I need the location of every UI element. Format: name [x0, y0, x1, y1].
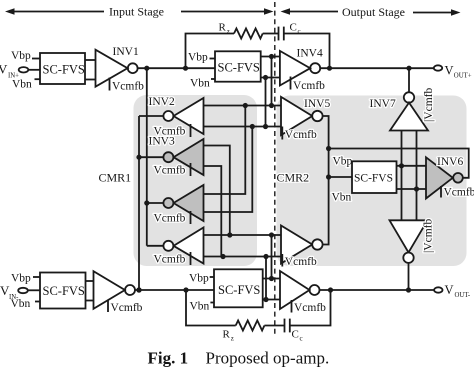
block SC-FVS U6 [352, 161, 397, 193]
inverter U7 (down) [390, 220, 428, 263]
junction bus minus to bottom rail [136, 287, 141, 292]
block SC-FVS U1 [40, 53, 85, 84]
wire bottom rail to box5 [135, 289, 214, 291]
inverter U11 (bottom output) [280, 271, 320, 309]
shaded region CMR2/output [277, 96, 467, 267]
junction bottom feedback [328, 287, 333, 292]
svg-text:V: V [445, 283, 454, 297]
wire box1 to INV1 upper [85, 59, 96, 61]
label Vcmfb INV4 [291, 77, 326, 93]
terminal Vout+ [434, 65, 442, 70]
label Rz bottom [223, 329, 234, 343]
svg-text:INV1: INV1 [113, 46, 139, 58]
wire Vbp stub bottom [33, 276, 40, 278]
wire bus B lower segment [271, 235, 273, 279]
wire Vin+ to box [28, 69, 40, 71]
wire resistor to cap top [263, 33, 279, 35]
junction U7 on bottom rail [406, 287, 411, 292]
svg-text:SC-FVS: SC-FVS [43, 63, 85, 77]
junction w1/busB [269, 103, 274, 108]
wire CMR1 bus plus (x146.8) [146, 68, 148, 246]
wire cap to bottom rail [290, 290, 331, 326]
label Vout- [445, 283, 471, 299]
label Vcmfb U4 [154, 252, 191, 266]
resistor Rz (bottom) [236, 321, 265, 331]
wire INV4 output rail [320, 67, 434, 69]
wire INV7 leg right [416, 131, 418, 221]
svg-text:INV5: INV5 [304, 98, 330, 110]
junction leg1/box3 wire [399, 163, 404, 168]
wire w5 U3 top cross [204, 106, 246, 195]
svg-text:Vbp: Vbp [333, 156, 353, 168]
svg-text:R: R [223, 329, 231, 341]
capacitor Cc (bottom) [285, 319, 290, 333]
svg-text:Vbn: Vbn [11, 298, 31, 310]
wire box2 to INV4 lower [261, 77, 280, 79]
junction CMR2 bus / loop [326, 146, 331, 151]
junction w1/w5 [243, 103, 248, 108]
shaded region CMR1 [134, 95, 258, 266]
wire feedback top left vertical [186, 34, 235, 69]
svg-text:CMR1: CMR1 [99, 171, 132, 185]
label Rz top [219, 22, 230, 36]
wire top rail INV1 to box2 [138, 67, 215, 69]
inverter INV2 [163, 98, 203, 134]
inverter U3 (gray) [163, 185, 203, 221]
wire CMR2 output bus [323, 116, 329, 245]
svg-text:Vcmfb: Vcmfb [154, 213, 186, 225]
wire Vbn stub bottom [35, 301, 40, 303]
node Vin- label [0, 283, 19, 301]
wire cap to INV4 output [284, 34, 330, 69]
svg-text:Vcmfb: Vcmfb [285, 256, 317, 268]
svg-text:INV7: INV7 [370, 98, 396, 110]
wire w7 U4 top to CMR2 lower inverter [204, 234, 282, 236]
stage separator dashed line [274, 2, 276, 337]
inverter INV6 [426, 157, 463, 198]
inverter INV4 [280, 51, 320, 86]
junction w8/busA2 [263, 254, 268, 259]
svg-text:Vcmfb: Vcmfb [444, 187, 474, 199]
junction INV3 out on bus [136, 155, 141, 160]
label Vcmfb INV6 [441, 186, 474, 199]
output stage annotation left arrow [281, 8, 339, 15]
wire CMR1 bus minus (x139) [138, 116, 140, 290]
wire w1 INV2 top to INV5 top [204, 105, 282, 107]
junction top rail to CMR1 [144, 66, 149, 71]
label Vcmfb INV3 [154, 163, 191, 177]
svg-text:V: V [0, 62, 8, 77]
svg-text:Vbp: Vbp [11, 50, 31, 62]
svg-text:R: R [219, 22, 227, 34]
inverter U5 (CMR2 lower) [281, 226, 323, 264]
svg-text:SC-FVS: SC-FVS [218, 283, 260, 297]
inverter U4 (white) [163, 228, 203, 264]
junction CMR2 bus / box3 [326, 174, 331, 179]
junction bottom rail / CMR1 bus [136, 287, 141, 292]
junction busB2 end [269, 276, 274, 281]
svg-text:Vcmfb: Vcmfb [293, 80, 325, 92]
label Vcmfb INV5 [282, 127, 317, 142]
label Vcmfb INV1 [110, 78, 145, 93]
wire w2 INV2 bottom to INV5 bottom [204, 126, 282, 128]
wire U7 to bottom rail [408, 263, 410, 290]
junction top rail to feedback [183, 66, 188, 71]
wire w8 U4 bottom to CMR2 lower inverter [204, 256, 282, 258]
wire INV2 output [139, 115, 164, 117]
junction B top [269, 54, 274, 59]
block SC-FVS U10 [214, 269, 263, 307]
svg-text:|Vcmfb: |Vcmfb [423, 88, 435, 122]
wire INV6 output loop [329, 149, 469, 178]
svg-text:V: V [445, 64, 454, 78]
svg-text:z: z [231, 335, 234, 343]
svg-text:SC-FVS: SC-FVS [218, 61, 260, 75]
wire box2 to INV4 upper [261, 56, 280, 58]
wire resistor to cap bottom [264, 325, 284, 327]
wire Vbp stub box5 [210, 276, 214, 278]
junction INV7 tap [406, 66, 411, 71]
svg-text:OUT-: OUT- [455, 292, 471, 299]
wire inverter3 output [147, 202, 164, 204]
svg-text:Vbn: Vbn [12, 79, 32, 91]
node Vin+ label [0, 62, 19, 80]
svg-text:Vbp: Vbp [188, 52, 208, 64]
wire Vbn stub [35, 78, 41, 80]
inverter INV1 [96, 50, 138, 87]
svg-text:INV3: INV3 [149, 136, 175, 148]
wire INV7 leg left [401, 131, 403, 221]
wire inverter4 output [147, 245, 164, 247]
svg-text:CMR2: CMR2 [277, 171, 310, 185]
block SC-FVS U2 [215, 51, 261, 81]
wire box4 to INV lower [86, 300, 94, 302]
inverter INV3 [163, 139, 203, 175]
input stage annotation left arrow [5, 8, 104, 15]
wire bottom output rail [320, 289, 435, 291]
svg-text:|Vcmfb: |Vcmfb [423, 219, 435, 253]
junction busA2 end [263, 297, 268, 302]
wire box5 to INV upper [263, 278, 280, 280]
wire w3 INV3 top cross [204, 146, 230, 236]
junction w7/w3 [227, 232, 232, 237]
wire w4 INV3 bottom cross [204, 166, 222, 257]
wire box5 to INV lower [263, 299, 280, 301]
terminal Vout- [434, 287, 442, 292]
resistor Rz (top) [234, 29, 263, 39]
label Vcmfb U9 [108, 300, 143, 315]
junction A top [263, 75, 268, 80]
svg-text:Vbp: Vbp [11, 273, 31, 285]
terminal Vin+ [19, 67, 29, 72]
svg-text:SC-FVS: SC-FVS [43, 284, 85, 298]
wire box3 to INV6 upper [397, 165, 427, 167]
capacitor Cc (top) [279, 27, 284, 41]
svg-text:Vcmfb: Vcmfb [154, 165, 186, 177]
svg-text:INV6: INV6 [437, 156, 463, 168]
svg-text:Vcmfb: Vcmfb [285, 129, 317, 141]
junction feedback at INV4 out [327, 66, 332, 71]
wire box1 to INV1 lower [85, 79, 96, 81]
label Vcmfb INV2 [154, 124, 191, 138]
wire Vout+ to INV7 [408, 68, 410, 92]
junction w2/busA [263, 124, 268, 129]
label Vcmfb U11 [292, 300, 327, 314]
svg-text:Fig. 1: Fig. 1 [148, 349, 189, 368]
terminal Vin- [18, 288, 28, 293]
svg-text:z: z [227, 28, 230, 36]
inverter U9 (bottom left) [94, 271, 136, 309]
inverter INV5 [281, 97, 323, 135]
label Cc top [290, 21, 301, 35]
inverter INV7 [390, 92, 428, 130]
wire w6 U3 bottom cross [204, 127, 253, 213]
wire Vbn stub box5 [210, 302, 214, 304]
wire box4 to INV upper [86, 280, 94, 282]
label Vcmfb U3 [154, 211, 191, 225]
svg-text:Output Stage: Output Stage [342, 5, 405, 19]
svg-text:SC-FVS: SC-FVS [354, 173, 393, 185]
block SC-FVS U8 [40, 273, 86, 309]
input stage annotation right arrow [181, 8, 274, 15]
wire box3 to INV6 lower [397, 188, 427, 190]
wire Vin- to box [28, 289, 40, 291]
svg-text:Vbp: Vbp [189, 273, 209, 285]
svg-text:Vbn: Vbn [332, 192, 352, 204]
svg-text:C: C [290, 21, 297, 33]
svg-text:Vbn: Vbn [190, 301, 210, 313]
svg-text:Vcmfb: Vcmfb [112, 81, 144, 93]
junction leg2/box3 wire [414, 186, 419, 191]
wire bus B upper segment [271, 57, 273, 106]
svg-text:Vcmfb: Vcmfb [294, 302, 326, 314]
wire box3 mid input [329, 176, 352, 178]
wire Vbn stub box2 [211, 78, 215, 80]
junction w8/w4 [220, 254, 225, 259]
junction w7/busB2 [269, 232, 274, 237]
svg-text:Vcmfb: Vcmfb [154, 254, 186, 266]
wire bus A upper segment [265, 78, 267, 127]
svg-text:INV4: INV4 [297, 48, 323, 60]
wire Vbp stub box2 [210, 58, 216, 60]
wire INV3 output [139, 156, 164, 158]
label Vout+ [445, 64, 472, 80]
junction w2/w6 [250, 124, 255, 129]
wire feedback bottom left vertical [186, 290, 236, 326]
svg-text:Vcmfb: Vcmfb [111, 302, 143, 314]
svg-text:C: C [292, 328, 299, 340]
svg-text:c: c [300, 334, 303, 342]
junction bottom rail / feedback [183, 287, 188, 292]
wire Vbp stub [32, 58, 40, 60]
junction inv3rd out on bus [144, 200, 149, 205]
output stage annotation right arrow [413, 9, 461, 16]
svg-text:Vbn: Vbn [190, 78, 210, 90]
label Vcmfb U5 [282, 254, 317, 268]
wire bus A lower segment [265, 257, 267, 300]
svg-text:INV2: INV2 [149, 96, 175, 108]
svg-text:OUT+: OUT+ [454, 73, 472, 80]
svg-text:Proposed op-amp.: Proposed op-amp. [206, 349, 330, 368]
svg-text:Input Stage: Input Stage [109, 5, 164, 19]
label Cc bottom [292, 328, 303, 342]
